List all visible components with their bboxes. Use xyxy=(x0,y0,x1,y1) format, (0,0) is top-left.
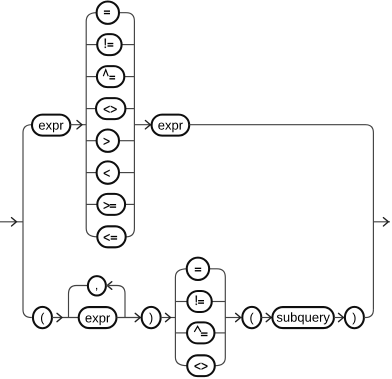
wire right stub stack1 <> row xyxy=(125,108,134,110)
wire left stub stack1 >= row xyxy=(86,203,97,205)
operator <> (stack1) xyxy=(96,98,125,119)
arrowhead into open paren 2 xyxy=(236,313,241,321)
wire right stub stack1 >= row xyxy=(125,203,134,205)
wire stack2 to open paren 2 xyxy=(225,317,241,319)
nonterminal expr 3 xyxy=(79,307,117,328)
wire subquery to close paren 2 xyxy=(334,317,344,319)
entry arrowhead xyxy=(12,218,17,226)
operator > (stack1) xyxy=(97,130,119,152)
operator < (stack1) xyxy=(97,161,119,183)
arrowhead into expr2 xyxy=(145,121,150,129)
comma circle xyxy=(88,276,106,295)
wire close paren 2 up to right rail xyxy=(364,310,374,318)
wire left stub stack1 < row xyxy=(86,172,96,174)
exit arrowhead xyxy=(383,218,388,226)
wire expr1 to stack1 xyxy=(70,124,86,126)
wire top line and right rail xyxy=(189,125,373,310)
operator <> (stack2) xyxy=(187,355,215,376)
loop arrowhead at comma xyxy=(107,282,112,290)
open paren 2 xyxy=(242,307,261,328)
close paren 1 xyxy=(142,307,161,328)
operator = (stack2) xyxy=(187,258,209,280)
arrowhead into close paren 2 xyxy=(339,313,344,321)
wire right stub stack1 > row xyxy=(119,140,134,142)
operator >= (stack1) xyxy=(97,194,125,215)
close paren 2 xyxy=(345,307,364,328)
wire entry line xyxy=(0,221,23,223)
wire left stub stack1 <> row xyxy=(86,108,96,110)
arrowhead into stack1 xyxy=(77,121,82,129)
operator != (stack2) xyxy=(187,291,211,312)
wire stack1 to expr2 xyxy=(134,124,150,126)
arrowhead into subquery xyxy=(266,313,271,321)
wire left stub stack1 != row xyxy=(86,44,97,46)
wire close paren 1 to stack2 xyxy=(161,317,176,319)
stack2 right rail xyxy=(209,269,226,366)
wire right stub stack2 != row xyxy=(212,301,226,303)
operator = (stack1) xyxy=(97,2,119,24)
wire right stub stack1 != row xyxy=(122,44,135,46)
wire left stub stack1 ^= row xyxy=(86,76,97,78)
nonterminal expr 2 xyxy=(152,115,190,136)
operator <= (stack1) xyxy=(97,226,125,247)
stack1 right rail xyxy=(119,13,134,237)
arrowhead after close paren 1 xyxy=(166,313,171,321)
wire paren1 to expr3 xyxy=(52,317,80,319)
arrowhead into close paren 1 xyxy=(135,313,140,321)
wire loop right riser xyxy=(106,286,125,318)
nonterminal expr 1 xyxy=(32,115,70,136)
open paren 1 xyxy=(33,307,52,328)
operator ^= (stack2) xyxy=(187,322,214,343)
wire left stub stack1 > row xyxy=(86,140,96,142)
operator != (stack1) xyxy=(97,34,121,55)
stack1 left rail xyxy=(86,13,97,237)
wire right stub stack1 < row xyxy=(119,172,134,174)
nonterminal subquery xyxy=(272,307,334,328)
wire loop left riser and top xyxy=(69,286,88,318)
operator ^= (stack1) xyxy=(97,66,124,87)
stack2 left rail xyxy=(175,269,187,366)
wire left rail with corners xyxy=(23,125,32,318)
wire right stub stack1 ^= row xyxy=(124,76,134,78)
wire exit line xyxy=(373,221,390,223)
wire left stub stack2 != row xyxy=(175,301,187,303)
wire expr3 to close paren 1 xyxy=(117,317,141,319)
arrowhead after paren1 xyxy=(57,313,62,321)
wire open paren 2 to subquery xyxy=(261,317,271,319)
wire left stub stack2 ^= row xyxy=(175,332,187,334)
wire right stub stack2 ^= row xyxy=(215,332,226,334)
